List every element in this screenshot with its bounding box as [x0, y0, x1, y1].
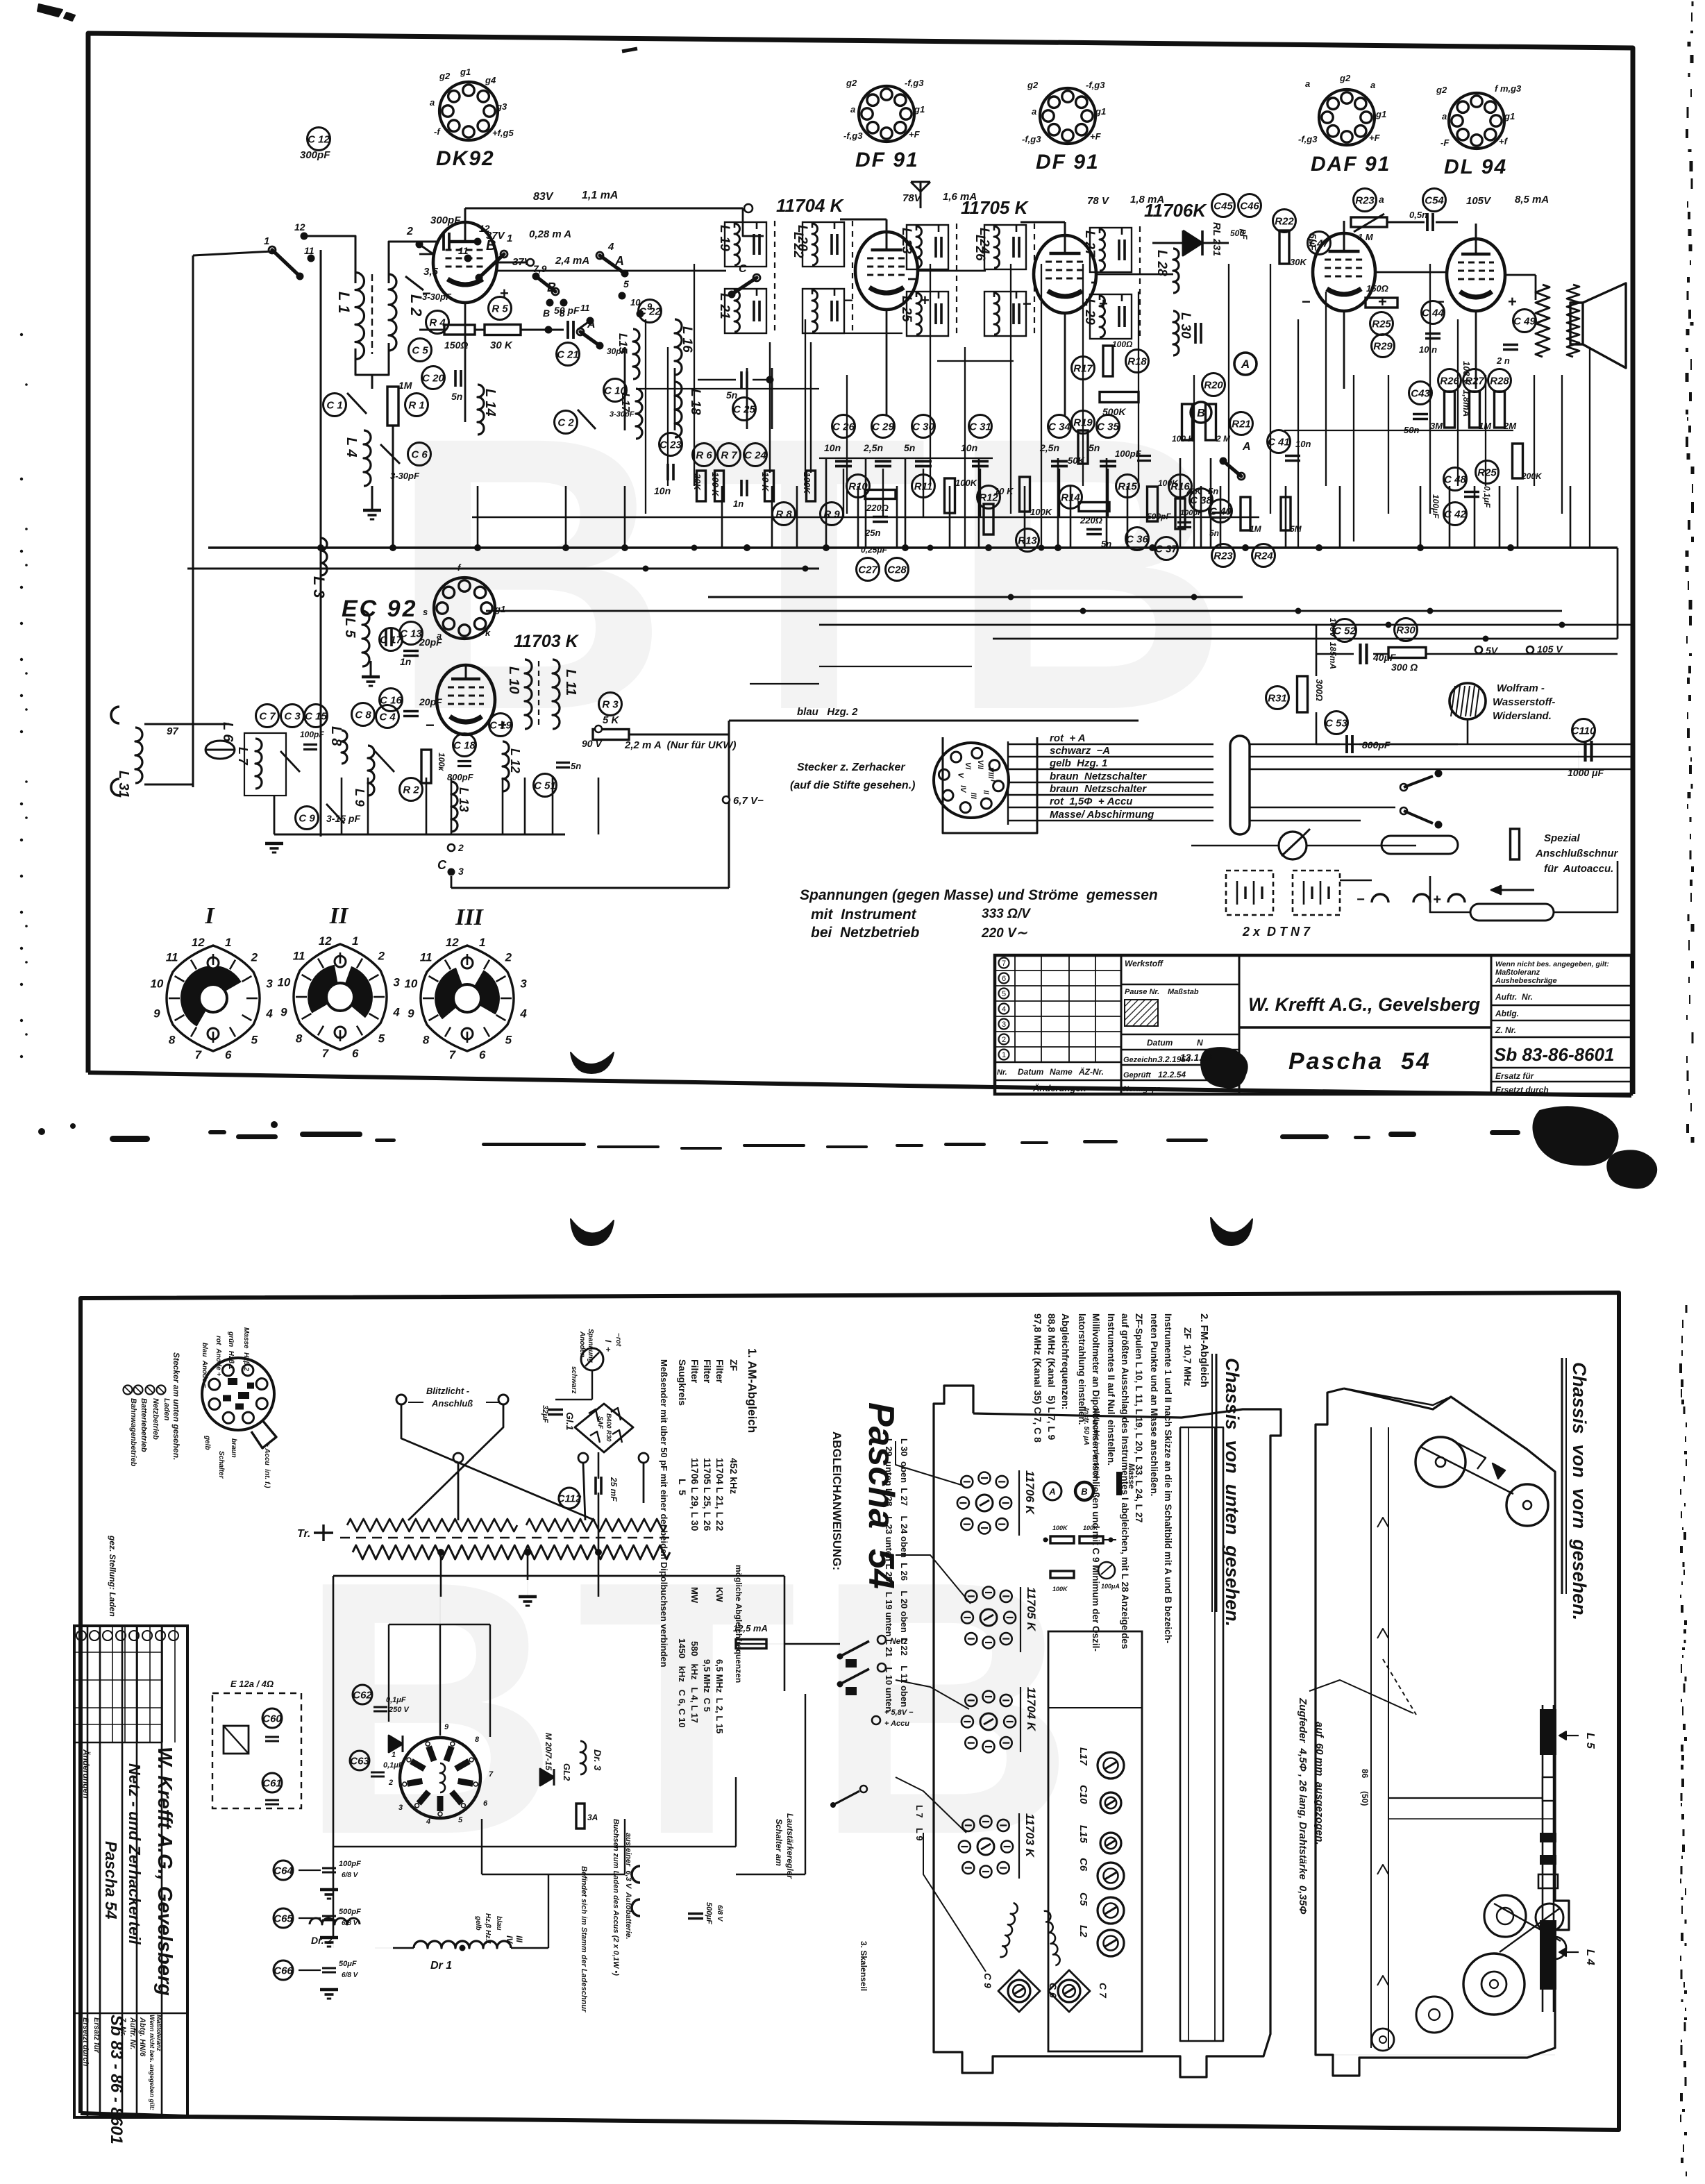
svg-text:W. Krefft A.G., Gevelsberg: W. Krefft A.G., Gevelsberg	[1248, 994, 1481, 1015]
svg-text:Dr. 3: Dr. 3	[592, 1749, 603, 1771]
svg-text:100 K: 100 K	[1172, 434, 1195, 444]
wire meter p2	[591, 1370, 593, 1400]
label C1	[324, 394, 346, 417]
svg-text:0,5n: 0,5n	[1409, 210, 1427, 220]
svg-text:Buchsen zum Laden des Accus (2: Buchsen zum Laden des Accus (2 x 0,1W •)	[612, 1819, 620, 1976]
svg-text:C 7: C 7	[1098, 1983, 1109, 1999]
svg-text:5n: 5n	[904, 442, 915, 453]
svg-text:Datum: Datum	[1018, 1067, 1044, 1077]
terminal hook	[632, 1899, 640, 1916]
svg-text:C64: C64	[274, 1865, 293, 1877]
AM-Abgleich text block	[659, 1348, 759, 1733]
svg-text:100K: 100K	[1052, 1586, 1068, 1593]
svg-text:C6: C6	[1077, 1858, 1089, 1872]
ground	[362, 677, 380, 686]
svg-text:6: 6	[225, 1048, 232, 1061]
svg-text:R 7: R 7	[721, 450, 737, 462]
wire R5 to C21	[548, 329, 564, 331]
svg-text:A: A	[614, 254, 624, 268]
Dr3 coil	[580, 1741, 586, 1774]
svg-text:C 31: C 31	[969, 421, 991, 433]
label B circ	[1191, 402, 1211, 423]
wire l31	[144, 723, 229, 725]
svg-text:1,1 mA: 1,1 mA	[582, 190, 618, 201]
svg-text:ABGLEICHANWEISUNG:: ABGLEICHANWEISUNG:	[830, 1431, 843, 1570]
crescent mark mid-right	[1211, 1218, 1252, 1245]
svg-text:500μF: 500μF	[705, 1902, 713, 1924]
adjust knob	[1098, 1930, 1124, 1956]
svg-text:Werkstoff: Werkstoff	[1125, 959, 1164, 968]
svg-text:2: 2	[378, 950, 385, 963]
svg-text:500K: 500K	[1102, 406, 1126, 417]
transformer primary zigzag	[347, 1519, 517, 1531]
svg-text:25n: 25n	[864, 528, 880, 538]
bottom pulley big	[1463, 1954, 1525, 2015]
svg-text:8: 8	[169, 1033, 176, 1046]
res 3A	[576, 1804, 585, 1829]
svg-text:rot 1,5Φ + Accu: rot 1,5Φ + Accu	[1050, 796, 1132, 807]
wire labels bundle	[1008, 744, 1213, 746]
svg-text:30 K: 30 K	[490, 339, 513, 351]
wire DK92 right pin	[497, 262, 528, 264]
svg-text:11705 L 25, L 26: 11705 L 25, L 26	[702, 1458, 713, 1531]
svg-text:C27: C27	[858, 564, 877, 576]
svg-text:L17: L17	[1077, 1747, 1089, 1766]
svg-text:R 5: R 5	[492, 303, 508, 315]
label C110	[1572, 719, 1596, 742]
svg-text:C 44: C 44	[1422, 308, 1444, 319]
svg-text:Nullpunkt in der Mitte: Nullpunkt in der Mitte	[1092, 1408, 1100, 1479]
svg-text:108V 185mA: 108V 185mA	[1328, 618, 1338, 669]
label R25	[1370, 312, 1393, 335]
svg-text:C66: C66	[274, 1965, 293, 1977]
svg-text:R 2: R 2	[403, 784, 419, 796]
svg-text:+: +	[1433, 892, 1441, 907]
svg-text:Schalter: Schalter	[217, 1451, 225, 1479]
svg-text:mit Instrument: mit Instrument	[811, 907, 917, 923]
label C18	[453, 734, 476, 757]
plug radial labels	[171, 1327, 271, 1488]
svg-text:2: 2	[406, 226, 413, 237]
revision table rows	[995, 955, 1121, 1093]
tube socket DF91 (1)	[843, 78, 925, 142]
diode RL231	[1183, 230, 1202, 255]
label 105V r	[1527, 646, 1534, 653]
svg-text:+ Accu: + Accu	[884, 1720, 909, 1728]
svg-text:C 17: C 17	[380, 635, 402, 646]
wire diode top	[1152, 242, 1183, 244]
svg-text:auf 60 mm ausgezogen.: auf 60 mm ausgezogen.	[1313, 1722, 1325, 1845]
label C64	[274, 1860, 293, 1880]
wire cap to pin12	[455, 241, 478, 243]
label C13	[400, 622, 423, 645]
svg-text:Wasserstoff-: Wasserstoff-	[1493, 696, 1555, 708]
svg-text:Sb 83-86-8601: Sb 83-86-8601	[1494, 1044, 1614, 1065]
svg-text:250 V: 250 V	[388, 1706, 410, 1714]
svg-text:L 10: L 10	[506, 666, 521, 694]
coil L28	[1173, 249, 1179, 293]
svg-text:6: 6	[352, 1047, 359, 1060]
svg-text:2,5n: 2,5n	[1039, 442, 1059, 453]
svg-text:100 K: 100 K	[710, 472, 721, 497]
dial pointer strip	[1377, 1518, 1388, 1527]
svg-text:5n: 5n	[726, 389, 737, 401]
svg-text:L 19: L 19	[717, 225, 732, 251]
svg-text:L 14: L 14	[482, 389, 498, 417]
svg-text:C 6: C 6	[411, 449, 428, 461]
svg-text:Ersatz für: Ersatz für	[92, 2017, 101, 2053]
pot 1M	[1351, 217, 1387, 227]
wire bridge down	[598, 1452, 600, 1479]
svg-text:Batteriebetrieb: Batteriebetrieb	[140, 1398, 148, 1452]
dashed box E12a	[212, 1693, 301, 1808]
svg-text:Anschlußschnur: Anschlußschnur	[1535, 848, 1619, 859]
switch arm A	[1220, 457, 1245, 480]
page2 revision table	[74, 1626, 178, 1799]
svg-text:2,2 m A (Nur für UKW): 2,2 m A (Nur für UKW)	[624, 739, 737, 751]
label C8	[352, 703, 375, 726]
svg-text:B400 R30: B400 R30	[605, 1413, 612, 1442]
svg-text:gez. Stellung: Laden: gez. Stellung: Laden	[108, 1535, 117, 1617]
svg-text:R23: R23	[1355, 195, 1375, 207]
trimmer cluster a	[957, 1472, 1011, 1534]
svg-text:10: 10	[150, 977, 163, 990]
label C31	[969, 415, 992, 438]
svg-text:5: 5	[378, 1032, 385, 1045]
svg-text:Gezeichn.: Gezeichn.	[1123, 1056, 1159, 1064]
svg-text:97: 97	[167, 725, 178, 737]
transformer gnd	[314, 1531, 333, 1534]
small circ left	[1372, 2028, 1394, 2051]
cap 2n out	[1503, 345, 1518, 350]
svg-text:Hz.β Hz.1: Hz.β Hz.1	[484, 1913, 492, 1944]
svg-text:4: 4	[607, 241, 614, 253]
svg-text:B: B	[1081, 1486, 1087, 1497]
coil L14	[478, 385, 484, 435]
bottom pulley mid	[1484, 1895, 1526, 1937]
trimmer arrows ec	[280, 751, 300, 772]
svg-text:a: a	[850, 104, 855, 115]
left margin dots	[20, 333, 28, 1058]
svg-text:7,9: 7,9	[533, 263, 547, 274]
svg-text:2: 2	[251, 951, 258, 964]
coil L12	[503, 741, 509, 791]
svg-text:11704 K: 11704 K	[1025, 1687, 1038, 1732]
label R23	[1354, 189, 1377, 212]
svg-text:EC 92: EC 92	[342, 596, 418, 622]
IF can 11705K right half	[977, 224, 1034, 338]
svg-text:Netz - und Zerhackerteil: Netz - und Zerhackerteil	[126, 1763, 144, 1944]
svg-text:rot + A: rot + A	[1050, 732, 1086, 744]
svg-text:L 12: L 12	[508, 748, 522, 773]
resistor 500K	[1100, 392, 1139, 403]
svg-text:1n: 1n	[400, 656, 411, 667]
svg-text:M 20/7-15: M 20/7-15	[544, 1733, 553, 1770]
svg-text:100K: 100K	[1052, 1524, 1068, 1531]
wire tube plate runs	[497, 270, 726, 272]
svg-text:Datum: Datum	[1147, 1038, 1173, 1048]
svg-text:5: 5	[458, 1816, 463, 1824]
svg-text:220Ω: 220Ω	[1080, 515, 1102, 526]
bottom knobs C6C7	[982, 1970, 1109, 2012]
AB meters sketch	[1043, 1482, 1061, 1500]
svg-text:-f,g3: -f,g3	[1022, 134, 1041, 144]
long vertical wire left2	[192, 255, 194, 715]
belt top	[1420, 1447, 1513, 1494]
wire L2 to cap	[389, 242, 437, 283]
switch wafer III	[404, 936, 527, 1061]
label R3	[599, 693, 622, 716]
svg-text:11: 11	[580, 303, 590, 313]
svg-text:5n: 5n	[451, 391, 462, 402]
label C47	[1308, 232, 1331, 255]
battery	[1293, 871, 1340, 915]
wire meter	[1191, 845, 1279, 847]
svg-text:-f,g3: -f,g3	[1298, 134, 1318, 144]
label C48	[1444, 468, 1467, 491]
label A circ2	[1234, 353, 1257, 375]
svg-text:C60: C60	[262, 1713, 282, 1725]
svg-text:R24: R24	[1254, 551, 1273, 562]
cap 300pF top	[444, 233, 449, 251]
label C27	[857, 558, 880, 581]
switch arm b1	[476, 251, 508, 282]
label C15	[305, 705, 328, 728]
motor circle	[1416, 1997, 1452, 2033]
cap 5n b	[1086, 530, 1102, 535]
svg-text:100pF: 100pF	[339, 1860, 361, 1868]
scan artifact top-left	[37, 4, 62, 17]
svg-text:g2: g2	[1436, 85, 1447, 95]
svg-text:C 24: C 24	[744, 450, 766, 462]
svg-text:s: s	[423, 607, 428, 617]
label R18	[1126, 350, 1149, 373]
svg-text:Maßtoleranz: Maßtoleranz	[1495, 968, 1540, 977]
label C40	[1209, 500, 1232, 523]
svg-text:11703 K: 11703 K	[514, 632, 580, 651]
wire DL94 top	[1475, 224, 1477, 239]
wire can L21 down	[769, 342, 771, 473]
resnet	[1050, 1536, 1074, 1543]
label C20	[422, 367, 445, 389]
svg-text:Spezial: Spezial	[1544, 832, 1581, 844]
svg-text:220 V∼: 220 V∼	[981, 926, 1028, 941]
wire bus right 920	[993, 638, 1618, 640]
tube socket DL94	[1436, 83, 1522, 149]
wire right rail	[805, 1694, 806, 1874]
label C16	[380, 689, 403, 712]
svg-text:300pF: 300pF	[430, 215, 461, 226]
svg-text:C 5: C 5	[412, 345, 428, 357]
svg-text:220Ω: 220Ω	[866, 503, 889, 513]
svg-text:Chassis von unten gesehen.: Chassis von unten gesehen.	[1222, 1358, 1243, 1627]
svg-text:1 M: 1 M	[1358, 232, 1374, 242]
svg-text:B: B	[543, 308, 550, 319]
svg-text:A: A	[1048, 1486, 1055, 1497]
ground	[320, 1990, 338, 1999]
svg-text:SAF: SAF	[597, 1416, 604, 1429]
svg-text:88,8 MHz (Kanal 5) L 7, L 9: 88,8 MHz (Kanal 5) L 7, L 9	[1046, 1313, 1057, 1440]
svg-text:9: 9	[280, 1006, 287, 1019]
wire block down	[371, 375, 373, 389]
svg-text:III: III	[514, 1935, 524, 1943]
svg-text:4: 4	[519, 1007, 527, 1020]
bridge Gl1	[564, 1404, 633, 1452]
svg-text:3: 3	[1002, 1020, 1006, 1029]
svg-text:5n: 5n	[1208, 486, 1218, 496]
svg-text:I: I	[204, 903, 215, 929]
switch wafer II	[277, 934, 400, 1060]
ground	[265, 843, 283, 852]
svg-text:200K: 200K	[1521, 471, 1543, 481]
svg-text:100K: 100K	[955, 478, 978, 488]
svg-text:C45: C45	[1213, 201, 1233, 212]
svg-text:L 29: L 29	[1082, 299, 1097, 325]
svg-text:20pF: 20pF	[419, 637, 442, 648]
svg-text:1. AM-Abgleich: 1. AM-Abgleich	[746, 1348, 759, 1433]
middle column fields	[1123, 959, 1203, 1093]
svg-text:ZF-Spulen L 10, L 11, L 19, L: ZF-Spulen L 10, L 11, L 19, L 20, L 33, …	[1134, 1313, 1144, 1522]
svg-text:Abgleichfrequenzen:: Abgleichfrequenzen:	[1060, 1313, 1071, 1409]
svg-text:L 28: L 28	[1154, 250, 1169, 276]
trimmer L15 block	[633, 329, 639, 379]
svg-text:9,5 MHz C 5: 9,5 MHz C 5	[702, 1659, 712, 1712]
scan smudge band between pages	[38, 1121, 1520, 1150]
svg-text:bei Netzbetrieb: bei Netzbetrieb	[811, 925, 920, 941]
battery	[1226, 871, 1273, 915]
svg-text:DF 91: DF 91	[855, 149, 919, 171]
svg-text:2: 2	[1002, 1036, 1006, 1044]
resistor 2M r28	[1495, 392, 1505, 428]
wire DAF91 top	[1343, 221, 1345, 233]
svg-text:C28: C28	[887, 564, 907, 576]
svg-text:150Ω: 150Ω	[1366, 283, 1388, 294]
svg-text:g1: g1	[494, 604, 505, 614]
label C60	[262, 1708, 282, 1728]
svg-text:VI: VI	[964, 762, 972, 770]
svg-text:9: 9	[408, 1007, 414, 1020]
label C62	[353, 1685, 372, 1704]
label R6	[693, 444, 716, 467]
wire left top	[193, 251, 272, 255]
svg-text:1: 1	[352, 934, 358, 948]
svg-text:A: A	[1241, 358, 1250, 371]
wires chopper main loop	[333, 1575, 784, 1577]
svg-text:C 9: C 9	[982, 1973, 993, 1988]
svg-text:50μF: 50μF	[339, 1960, 357, 1968]
svg-text:9: 9	[444, 1723, 449, 1731]
svg-text:R25: R25	[1372, 319, 1391, 330]
svg-text:100K: 100K	[1083, 1524, 1099, 1531]
svg-text:1: 1	[1002, 1051, 1006, 1059]
battery terminals	[1372, 894, 1388, 902]
svg-text:Spannungen (gegen Masse) und S: Spannungen (gegen Masse) und Ströme geme…	[800, 887, 1158, 903]
accu terminal	[872, 1716, 880, 1724]
chassis front view outline	[1316, 1388, 1569, 2076]
wire dr1	[393, 1947, 414, 1949]
wire top cap drop	[464, 208, 467, 222]
svg-text:9: 9	[153, 1007, 160, 1020]
large blob right 2	[1607, 1150, 1656, 1188]
svg-text:Änderungen: Änderungen	[81, 1749, 92, 1799]
wire 83V top line	[528, 208, 743, 210]
svg-text:Normgepr.: Normgepr.	[1123, 1085, 1161, 1093]
svg-text:0,1μF: 0,1μF	[383, 1761, 403, 1770]
svg-text:(auf die Stifte gesehen.): (auf die Stifte gesehen.)	[790, 780, 915, 791]
svg-text:L 27: L 27	[1082, 230, 1097, 258]
resistor R9b	[807, 471, 816, 501]
svg-text:L 24: L 24	[977, 228, 991, 254]
meter	[1279, 829, 1310, 859]
wire bus y880	[486, 610, 1562, 612]
svg-text:5: 5	[505, 1033, 512, 1046]
trimmer cluster c	[961, 1691, 1016, 1753]
label C35	[1097, 415, 1120, 438]
svg-text:R 6: R 6	[696, 450, 712, 462]
svg-text:R27: R27	[1465, 376, 1484, 387]
transformer core dashes	[340, 1537, 672, 1538]
svg-text:7: 7	[195, 1048, 203, 1061]
label R24	[1252, 544, 1275, 567]
svg-text:1450 kHz C 6, C 10: 1450 kHz C 6, C 10	[677, 1638, 687, 1728]
svg-text:VII: VII	[976, 760, 984, 770]
svg-text:Ersatz für: Ersatz für	[1495, 1071, 1535, 1081]
coil L31	[135, 728, 142, 783]
label R5	[489, 297, 512, 320]
svg-text:II: II	[982, 790, 990, 795]
svg-text:MW: MW	[689, 1587, 700, 1604]
svg-text:für Autoaccu.: für Autoaccu.	[1544, 863, 1613, 875]
page 2 sheet frame	[81, 1293, 1619, 2130]
svg-text:105 V: 105 V	[1537, 644, 1563, 655]
svg-text:Chassis von vorn gesehen.: Chassis von vorn gesehen.	[1569, 1362, 1590, 1620]
svg-text:C65: C65	[274, 1913, 293, 1925]
svg-text:R26: R26	[1440, 376, 1459, 387]
label C53	[1325, 712, 1348, 734]
mid spring pointer	[1383, 1659, 1416, 1715]
svg-text:g1: g1	[1504, 111, 1515, 121]
wire bus y819	[187, 568, 819, 570]
svg-text:83V: 83V	[533, 191, 554, 203]
svg-text:A: A	[587, 319, 596, 330]
svg-text:C 29: C 29	[872, 421, 894, 433]
zugfeder leader	[1309, 1680, 1413, 1713]
svg-text:L2: L2	[1077, 1925, 1089, 1938]
svg-text:1n: 1n	[733, 498, 744, 509]
svg-text:C 48: C 48	[1444, 474, 1466, 486]
svg-text:C62: C62	[353, 1690, 372, 1702]
svg-text:32μF: 32μF	[541, 1405, 549, 1423]
label R31	[1266, 687, 1289, 709]
svg-text:5n: 5n	[1089, 442, 1100, 453]
wire netz	[784, 1643, 840, 1645]
svg-text:C 1: C 1	[326, 400, 342, 412]
svg-text:DAF 91: DAF 91	[1311, 153, 1391, 176]
svg-text:L 30 oben L 27 L 24 oben: L 30 oben L 27 L 24 oben L 26 L 20 oben …	[899, 1438, 909, 1707]
wire bus right 900	[819, 624, 1631, 626]
svg-text:ZF: ZF	[728, 1359, 739, 1372]
svg-text:C 9: C 9	[299, 813, 315, 825]
wire long 83V to right	[743, 208, 764, 236]
wire right bundle	[548, 1874, 549, 1948]
svg-text:Auftr. Nr.: Auftr. Nr.	[1495, 992, 1533, 1002]
svg-text:C112: C112	[557, 1493, 582, 1505]
svg-text:blau Hzg. 2: blau Hzg. 2	[797, 706, 858, 718]
chopper tube socket	[388, 1723, 494, 1826]
label C49	[1513, 310, 1536, 333]
svg-text:IV: IV	[959, 785, 967, 793]
svg-text:1: 1	[392, 1751, 396, 1759]
